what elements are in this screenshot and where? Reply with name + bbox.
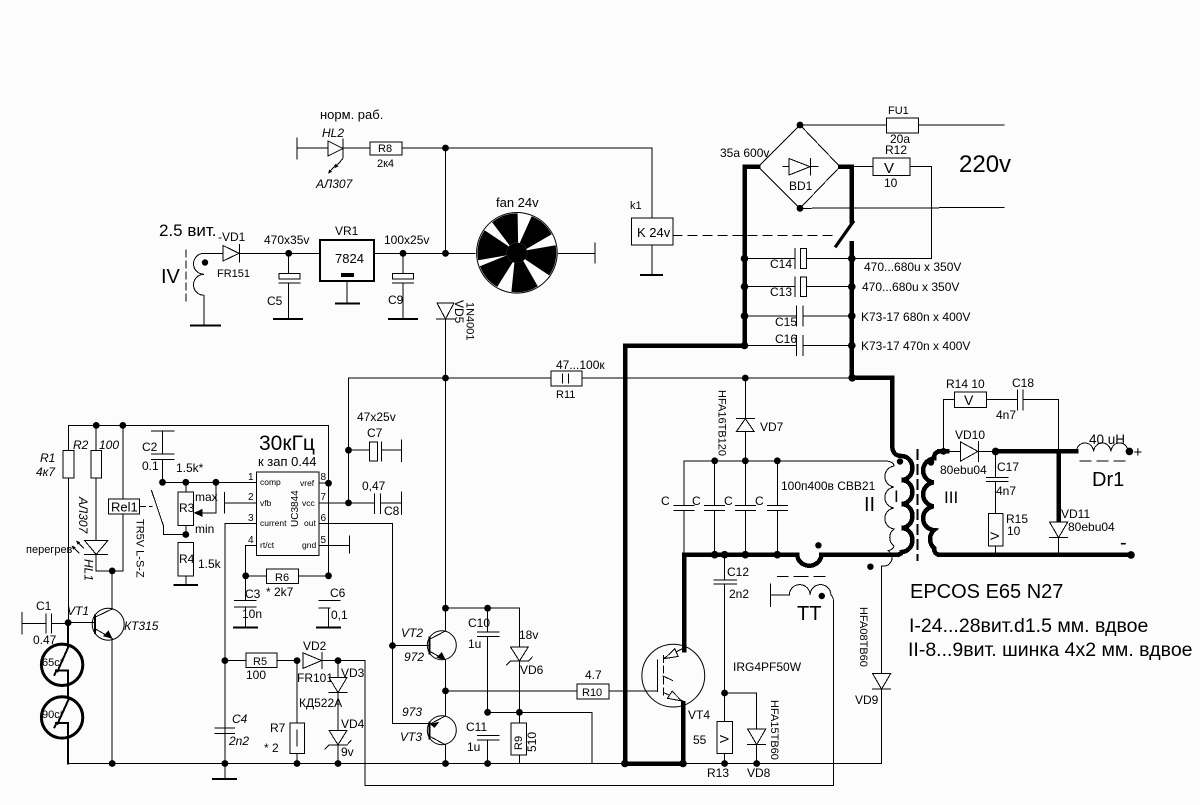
thermal switch SK1 65c [41,623,82,698]
svg-text:C16: C16 [775,332,797,346]
thick wire: IGBT emitter to minus corner [625,703,683,764]
resistor R6 [246,569,329,599]
svg-text:100: 100 [246,668,266,682]
svg-text:C17: C17 [997,460,1019,474]
label: норм. раб. [320,107,383,122]
wire: pin3 current sense column [225,524,257,764]
ground: main [213,764,236,780]
label: 220v [959,151,1011,178]
thick wire: output minus line [939,553,1131,558]
diode VD7 HFA16TB120 [716,375,784,461]
svg-text:4n7: 4n7 [996,484,1016,498]
svg-text:C2: C2 [142,440,158,454]
thick wire: IGBT collector drop [682,555,687,650]
junction: top rail / R2 [93,422,100,429]
relay contact (min/max switch) [152,491,186,535]
capacitor C4 [215,712,249,748]
svg-text:R9: R9 [513,736,525,750]
wire: VT2 base [393,645,430,647]
svg-text:2к4: 2к4 [377,158,394,170]
ground: winding IV [191,325,220,327]
svg-text:EPCOS E65 N27: EPCOS E65 N27 [910,581,1063,603]
svg-text:vref: vref [300,478,315,488]
label: 1.5k* [176,461,204,475]
svg-text:I: I [894,487,899,506]
resistor R4 [178,543,222,585]
svg-text:0,1: 0,1 [331,608,348,622]
transformer T1 winding I (primary) [852,378,912,555]
wire: R12 to cap bank top [852,167,932,259]
svg-text:C: C [755,494,764,508]
svg-text:VD9: VD9 [855,693,879,707]
wire: VD5 to 378-line [445,319,447,378]
svg-text:100п400в CBB21: 100п400в CBB21 [781,479,876,493]
transistor VT2 972 [401,626,456,691]
thermal switch SK2 90c [41,697,82,764]
junction: rail/VD4 [335,760,342,767]
svg-text:972: 972 [404,650,424,664]
dashed link: K1 to switch [673,234,836,236]
regulator VR1 7824 [320,224,374,304]
svg-text:K73-17 680n x 400V: K73-17 680n x 400V [861,310,970,324]
svg-text:2: 2 [248,492,254,503]
svg-text:R2: R2 [73,438,89,452]
svg-text:-: - [1120,532,1127,554]
capacitor C10 [468,608,499,712]
svg-text:470...680u x 350V: 470...680u x 350V [864,260,961,274]
bridge BD1 [720,125,840,208]
diode VD5 1N4001 [437,300,476,341]
svg-text:I-24...28вит.d1.5 мм. вдвое: I-24...28вит.d1.5 мм. вдвое [909,615,1148,637]
resistor R5 [225,653,297,682]
zener VD6 18v [507,628,544,712]
junction: plus bus C16 [848,342,856,350]
wire: R8 to K24v corner [402,148,652,218]
wire: base [68,622,95,624]
svg-text:rt/ct: rt/ct [260,540,275,550]
svg-text:HFA15TB60: HFA15TB60 [768,700,780,760]
svg-text:VD2: VD2 [303,639,327,653]
svg-text:100x25v: 100x25v [384,233,429,247]
svg-text:comp: comp [260,477,281,487]
svg-text:R6: R6 [275,572,289,584]
label: 470x35v [264,233,309,247]
node: fan right terminal [594,243,596,263]
wire: driver supply to C10/VD6 [446,608,520,646]
svg-text:V: V [964,392,974,408]
capacitor C14 [745,249,962,274]
svg-text:9v: 9v [341,745,354,759]
ground: C3 [234,627,257,629]
label: к зап 0.44 [258,454,316,469]
capacitor C1 [22,599,68,647]
capacitor C (1) [661,461,694,555]
label: HL2 [322,126,344,140]
capacitor C7 [349,410,402,461]
junction: output + node [992,448,1000,456]
node: output + terminal [1126,444,1143,461]
svg-text:R14 10: R14 10 [946,377,985,391]
wire: 378-line (R11/VD5/VD7 node) [349,377,853,379]
svg-text:C4: C4 [232,712,248,726]
junction: R6 right / C6 [325,572,332,579]
svg-text:C7: C7 [367,426,383,440]
diode VD2 FR101 [297,639,338,685]
svg-text:TT: TT [797,603,821,625]
wire: pin4 rt/ct [246,546,257,576]
wire: VD5 column (148-253) [445,148,447,253]
junction: R3/R4 [182,531,189,538]
capacitor C17 [987,451,1020,513]
svg-text:10: 10 [884,176,898,190]
node: TT primary polarity dot [815,542,821,548]
junction: emitters node [442,688,449,695]
svg-text:R13: R13 [707,766,729,780]
svg-text:973: 973 [402,705,422,719]
switch contact S1 [836,222,853,246]
svg-text:+: + [1134,444,1143,461]
resistor R15 (V box) [988,512,1028,555]
svg-text:out: out [304,518,316,528]
label: перегрев [26,544,73,556]
zener VD4 9v [325,717,365,759]
svg-text:HL1: HL1 [82,559,96,581]
svg-text:FR101: FR101 [297,671,333,685]
capacitor C (3) [724,461,755,555]
svg-text:gnd: gnd [302,540,316,550]
wire: fan to terminal [559,252,595,254]
resistor R9 [511,712,539,763]
junction: VD5 bottom [442,375,449,382]
label: HL1 [82,559,96,581]
label: 100п400в CBB21 [781,479,876,493]
svg-text:II-8...9вит. шинка 4x2 мм. вдв: II-8...9вит. шинка 4x2 мм. вдвое [908,639,1193,661]
svg-text:HFA16TB120: HFA16TB120 [716,390,728,456]
svg-text:V: V [884,160,894,177]
thick wire: winding III top lead [939,449,947,454]
junction: driver supply node [442,605,449,612]
svg-text:HL2: HL2 [322,126,344,140]
svg-text:8: 8 [321,472,327,483]
svg-text:КТ315: КТ315 [124,619,159,633]
svg-text:10n: 10n [242,607,262,621]
svg-text:1u: 1u [468,637,481,651]
transformer T1 winding III (secondary) [923,451,958,555]
svg-text:VD4: VD4 [341,717,365,731]
wire: R10 to VT4 gate [609,690,656,692]
ground: C5 [274,318,302,320]
wire: top rail [68,424,328,426]
svg-text:C: C [661,494,670,508]
wire: winding IV to VD1 [204,252,223,254]
svg-text:80ebu04: 80ebu04 [940,463,987,477]
thick wire: VD11 drop [1056,451,1061,522]
svg-text:C9: C9 [388,293,404,307]
junction: vcc node [345,500,352,507]
svg-text:2.5 вит.: 2.5 вит. [159,221,217,240]
junction: VD2/VD3/gate-return [335,657,342,664]
svg-text:C15: C15 [775,315,797,329]
svg-text:1u: 1u [467,740,480,754]
junction: bases node [389,642,396,649]
ground: K1 [641,274,662,276]
svg-text:R4: R4 [179,552,195,566]
svg-text:510: 510 [525,732,539,752]
wire: VR1 to fan [374,252,475,254]
node: HL2 left terminal [296,138,298,159]
svg-text:HFA08TB60: HFA08TB60 [857,607,869,667]
dashed link: Rel1 to contact [140,505,152,507]
svg-text:7: 7 [321,492,327,503]
svg-text:55: 55 [693,733,707,747]
label: -VD1 [218,230,246,244]
junction: R3 top [182,479,189,486]
junction: R8 line / VD5 column [442,145,449,152]
resistor R8 [370,142,402,170]
thick bus: bridge minus (left) [745,167,759,346]
junction: rail/VD8 [753,760,760,767]
junction: vref node [325,480,332,487]
resistor R2 100 [73,425,119,540]
resistor R12 (V box) [873,143,910,190]
wire: rail to Rel1 [122,425,124,499]
thick bus: bridge plus to switch [840,167,852,221]
junction: rail/C4 column [222,760,229,767]
wire: AC bottom line to 220v [800,207,1004,210]
svg-text:1.5k*: 1.5k* [176,461,204,475]
wire: VD3 column [337,661,339,764]
svg-text:Rel1: Rel1 [111,500,138,515]
junction: emitter/rail [679,760,687,768]
note: winding I spec [909,615,1148,637]
junction: minus bus C14 [741,255,749,263]
svg-text:470...680u x 350V: 470...680u x 350V [862,280,959,294]
svg-text:BD1: BD1 [789,179,813,193]
wire: pin8 vref [319,482,329,484]
svg-text:C1: C1 [36,599,52,613]
svg-text:7824: 7824 [335,251,364,266]
winding IV [194,253,209,325]
svg-text:* 2: * 2 [264,741,279,755]
snubber R14 (V box) + C18 [944,376,1059,451]
svg-text:min: min [195,522,214,536]
ground: C6 [317,627,340,629]
junction: C10 top [484,605,491,612]
svg-text:VD11: VD11 [1061,507,1090,521]
IC U1 UC3844 [248,472,327,556]
wire: pin5 gnd [319,545,349,547]
svg-text:fan 24v: fan 24v [496,195,539,210]
label: IV [161,266,181,288]
svg-text:3: 3 [248,513,254,524]
capacitor C15 [745,306,971,329]
junction: top rail / Rel1 [119,422,126,429]
diode VD9 HFA08TB60 [855,607,891,764]
svg-text:k1: k1 [630,200,642,212]
svg-text:0,47: 0,47 [362,479,386,493]
svg-text:C8: C8 [384,504,400,518]
svg-text:к зап 0.44: к зап 0.44 [258,454,316,469]
wire: resonant cap row top [684,460,884,462]
junction: fan line / VD5 column [442,250,449,257]
svg-text:FR151: FR151 [217,268,250,280]
wire: pin2 vfb [225,502,257,504]
resistor R10 [577,668,609,699]
capacitor C11 [466,720,499,764]
resistor R11 [551,358,605,401]
svg-text:1: 1 [248,472,254,483]
svg-text:K 24v: K 24v [637,225,671,240]
junction: plus bus C13 [848,283,856,291]
node: output - terminal [1120,532,1135,559]
wire: vcc feed column [348,378,350,503]
capacitor C (4) [755,461,787,555]
svg-text:4n7: 4n7 [996,408,1016,422]
svg-text:R5: R5 [253,656,267,668]
svg-text:1.5k: 1.5k [198,557,222,571]
svg-text:VD6: VD6 [520,663,544,677]
junction: rail/VT3 collector [442,760,449,767]
label: АЛ307 (HL2) [315,177,354,191]
transformer T1 core [917,450,919,560]
svg-text:C18: C18 [1012,376,1034,390]
svg-text:II: II [864,494,875,516]
wire: bridge + to R12 [840,166,873,168]
svg-text:FU1: FU1 [888,105,909,117]
label: 30кГц [259,432,315,455]
svg-text:VT2: VT2 [401,626,423,640]
svg-text:-VD1: -VD1 [218,230,246,244]
junction: minus bus C15 [741,312,749,320]
junction: VT1 collector node [109,568,116,575]
junction: VD2 anode / R7 [294,657,301,664]
diode VD10 80ebu04 [940,428,996,477]
svg-text:4: 4 [248,535,254,546]
svg-text:0.1: 0.1 [142,459,159,473]
thick wire: + node run [996,449,1077,454]
svg-text:18v: 18v [519,628,538,642]
diode VD3 КД522А [299,666,365,710]
junction: rail/C11 [484,760,491,767]
svg-text:1N4001: 1N4001 [464,302,476,341]
label: АЛ307 (HL1) [76,496,90,535]
wire: VD1 to VR1 [240,252,321,254]
junction: R14 branch [940,448,947,455]
svg-text:C6: C6 [330,586,346,600]
capacitor C13 [745,277,960,299]
resistor R13 [707,693,733,780]
svg-text:R12: R12 [885,143,907,157]
svg-text:R11: R11 [556,389,575,401]
junction: rail/R7 [294,760,301,767]
junction: C1/R1/base node [65,619,72,626]
junction: rail/VT1 emitter [109,760,116,767]
svg-text:6: 6 [321,513,327,524]
wire: bases column + VT3 base [393,646,430,724]
note: winding II spec [908,639,1193,661]
svg-text:VT1: VT1 [67,604,89,618]
diode VD8 HFA15TB60 [725,693,780,780]
inductor Dr1 40uH [1076,432,1128,491]
svg-text:VD10: VD10 [955,428,985,442]
svg-text:220v: 220v [959,151,1011,178]
note: EPCOS E65 N27 [910,581,1063,603]
svg-text:VD8: VD8 [747,766,771,780]
svg-text:C14: C14 [770,257,792,271]
junction: minus bus C13 [741,283,749,291]
svg-text:C3: C3 [245,587,261,601]
svg-text:UC3844: UC3844 [290,490,301,527]
svg-text:R10: R10 [582,687,602,699]
wire: HL1/Rel1/VT1 node [96,514,123,571]
capacitor C5 [267,253,300,319]
wire: TT secondary to gate-return line [833,605,835,786]
label: 100x25v [384,233,429,247]
fan M1 [477,213,558,294]
wire: FU1 to 220v [918,124,1004,126]
wire: HL2 anode [297,147,328,149]
potentiometer R3 [178,482,218,536]
LED HL1 [72,541,108,571]
svg-text:80ebu04: 80ebu04 [1068,520,1115,534]
svg-text:C10: C10 [468,616,490,630]
LED HL2 [328,139,343,174]
label: TR5V L-S-Z [134,519,146,578]
transistor VT1 КТ315 [67,604,159,764]
svg-text:V: V [988,532,1002,540]
resistor R1 4к7 [36,425,74,622]
svg-text:K73-17 470n x 400V: K73-17 470n x 400V [861,339,970,353]
thick bus: minus horizontal run [625,346,744,763]
diode VD1 FR151 [217,245,250,281]
svg-text:VR1: VR1 [335,224,359,238]
resistor R7 [264,661,305,764]
ground: VR1 [336,303,359,305]
junction: plus bus C14 [848,255,856,263]
svg-text:TR5V L-S-Z: TR5V L-S-Z [134,519,146,578]
svg-text:vcc: vcc [302,498,316,508]
ground: pin5 [348,536,350,553]
svg-text:IV: IV [161,266,181,288]
svg-text:III: III [944,488,958,507]
junction: minus bus C16 corner [741,342,749,350]
thick bus: switch to +310 corner [850,243,855,378]
node: vfb terminal [224,492,226,513]
junction: C7 node [345,447,352,454]
svg-text:R1: R1 [40,451,55,465]
svg-text:2n2: 2n2 [228,734,249,748]
svg-text:* 2k7: * 2k7 [266,585,294,599]
svg-text:current: current [260,518,287,528]
junction: cap row nodes [711,457,780,464]
transformer T1 winding II [864,461,894,674]
ground: C9 [389,318,417,320]
svg-text:АЛ307: АЛ307 [76,496,90,535]
wire: emitters to R10 [446,690,577,692]
junction: bridge bottom vertex [797,205,804,212]
junction: bridge top vertex [797,122,804,129]
wire: vref column up to top rail [328,425,330,483]
svg-text:C12: C12 [727,565,749,579]
junction: rail caps [711,551,781,559]
junction: plus bus C15 [848,312,856,320]
label: fan 24v [496,195,539,210]
junction: C10 bottom [484,709,491,716]
fuse FU1 [887,105,919,146]
wire: gate return riser [338,661,834,786]
junction: +310 corner / 378-line [848,374,856,382]
junction: VD6/R9 [516,709,523,716]
